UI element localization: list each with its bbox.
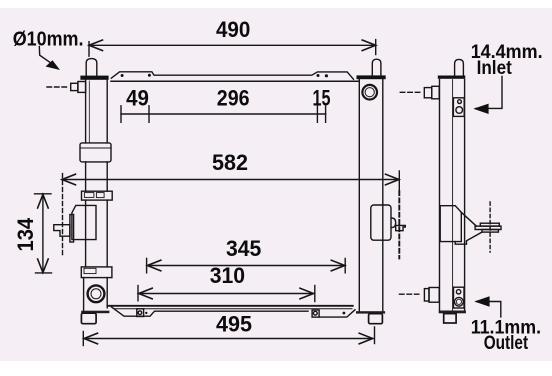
right bottom flange bar	[356, 311, 385, 313]
left filler neck	[86, 59, 97, 76]
core bottom line	[108, 305, 353, 307]
right mount pin	[396, 225, 406, 230]
collar 2	[82, 191, 113, 200]
svg-text:345: 345	[226, 236, 261, 261]
right mounting hole	[362, 85, 377, 100]
left mount bracket block	[70, 205, 96, 242]
dim 49/296/15	[121, 106, 326, 123]
left foot	[81, 313, 96, 324]
left extension line (dashed, 582)	[62, 174, 64, 256]
outlet port block	[454, 287, 465, 308]
leader inlet	[473, 77, 502, 115]
side foot	[444, 314, 456, 323]
svg-text:Ø10mm.: Ø10mm.	[13, 28, 84, 50]
bottom strip top edge	[114, 308, 352, 310]
svg-text:134: 134	[13, 217, 38, 251]
svg-text:310: 310	[210, 263, 245, 288]
right tank body	[359, 79, 383, 311]
svg-text:15: 15	[313, 86, 331, 111]
side body	[440, 80, 465, 311]
svg-text:490: 490	[216, 17, 250, 42]
dim 310	[138, 286, 315, 302]
collar 3	[81, 267, 112, 278]
header clip rivets	[121, 74, 328, 78]
inlet centerline (dashed)	[400, 91, 421, 93]
svg-text:49: 49	[126, 86, 149, 111]
dim 134	[35, 194, 52, 273]
outlet fitting	[424, 288, 439, 303]
right filler neck	[372, 59, 381, 75]
inlet fitting	[424, 86, 439, 99]
right cap black band	[357, 75, 386, 79]
outlet centerline (dashed)	[400, 293, 419, 295]
side bracket arm and plate	[455, 212, 501, 244]
dim 490	[89, 40, 376, 57]
leader Ø10	[39, 47, 60, 71]
svg-text:495: 495	[216, 312, 252, 337]
dim 345	[147, 258, 346, 272]
inlet port block	[453, 98, 464, 117]
header bottom line	[111, 80, 358, 82]
drain circle	[88, 285, 105, 302]
right extension line (582, solid then dashed)	[398, 171, 400, 258]
side cap black band	[438, 76, 466, 79]
side bracket centerline (dashed)	[489, 202, 491, 252]
svg-text:Outlet: Outlet	[484, 333, 529, 354]
side mid collar	[440, 206, 461, 242]
left cap black band	[80, 76, 108, 80]
left bottom flange bar	[81, 311, 109, 314]
svg-text:Inlet: Inlet	[477, 58, 513, 79]
svg-text:582: 582	[212, 150, 248, 175]
right foot	[369, 314, 383, 324]
collar 1	[80, 143, 111, 162]
right mount bracket	[371, 205, 396, 240]
dim 582	[62, 174, 399, 185]
svg-text:296: 296	[217, 86, 250, 111]
leader outlet	[474, 296, 501, 317]
dim 495	[83, 327, 374, 346]
fitting centerline (dashed)	[47, 86, 70, 88]
bottom left clip	[137, 309, 148, 317]
header top profile	[111, 72, 353, 80]
bottom right clip	[312, 310, 345, 317]
side bottom flange	[439, 311, 466, 314]
Ø10 hose fitting	[71, 82, 86, 93]
side filler neck	[455, 59, 464, 75]
bottom strip outline	[112, 307, 309, 316]
tank lower section	[84, 278, 108, 311]
left tank tube	[86, 80, 108, 143]
tube below collar2	[86, 200, 108, 267]
tube between collars	[86, 162, 108, 191]
left mount tab	[54, 225, 70, 237]
